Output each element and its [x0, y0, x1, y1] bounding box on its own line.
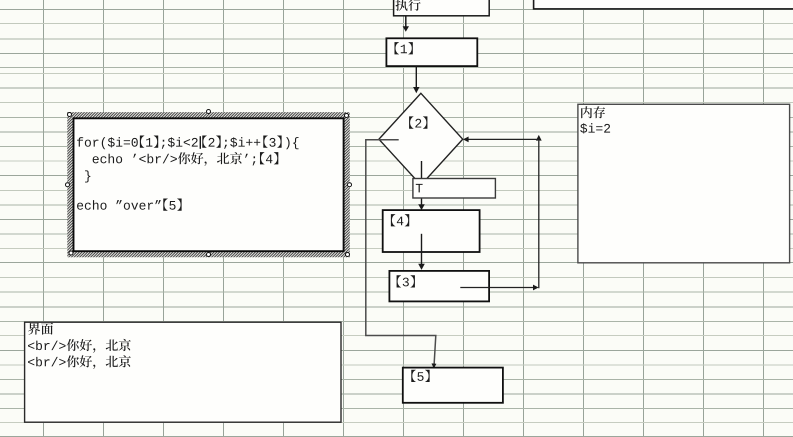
decision diamond 【2】	[379, 93, 463, 185]
memory text 内存 $i=2	[581, 106, 605, 118]
code line 2	[93, 152, 279, 166]
wire diamond false branch to box5	[366, 140, 437, 369]
selection handles	[66, 110, 352, 257]
wire box1 to diamond	[413, 66, 419, 93]
code textbox selection hatch frame	[67, 112, 350, 257]
label 【1】	[394, 42, 412, 54]
label T	[416, 184, 423, 193]
memory box 内存	[578, 104, 790, 262]
label 【3】	[397, 275, 415, 287]
process box 【4】	[383, 210, 480, 252]
wire box3 loop back to diamond	[460, 135, 541, 291]
code line 5	[77, 199, 182, 211]
wire box4 to box3	[418, 234, 425, 270]
terminator box 执行	[394, 0, 490, 16]
interface text 界面	[28, 323, 53, 335]
code textbox inner rect	[74, 118, 344, 251]
label 【5】	[411, 370, 429, 382]
wire diamond to box4	[418, 161, 425, 210]
partial box top-right	[534, 0, 793, 9]
code line 3	[85, 170, 90, 182]
text 执行	[395, 0, 420, 11]
code line 1	[77, 136, 298, 150]
label 【2】	[409, 116, 427, 128]
interface box 界面	[25, 322, 341, 422]
process box 【1】	[386, 38, 477, 66]
label 【4】	[391, 214, 409, 226]
wire exec to box1	[403, 16, 409, 32]
process box 【5】	[403, 368, 503, 403]
process box 【3】	[389, 271, 489, 302]
wire box3 exit segment	[460, 287, 489, 289]
label box T	[413, 179, 496, 199]
